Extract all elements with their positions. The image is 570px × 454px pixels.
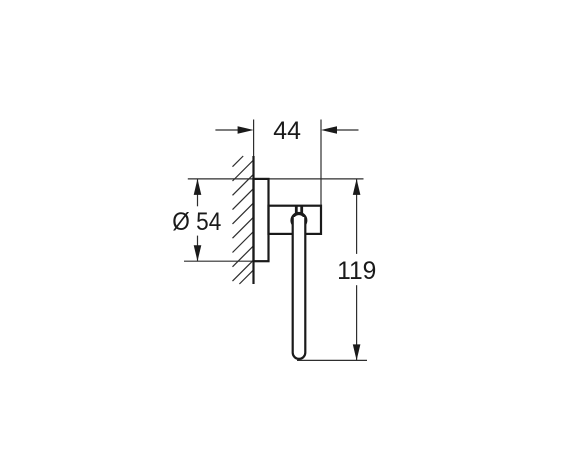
svg-text:44: 44 <box>273 117 301 145</box>
holder arm tube <box>293 217 306 359</box>
dim 44 right arrowhead <box>321 126 337 134</box>
dim 119 top arrowhead <box>353 179 361 195</box>
dim Ø54 line upper segment <box>197 179 199 206</box>
dim 44 right arrow shaft <box>332 129 359 131</box>
bottom extension line of dim Ø54 <box>184 260 269 262</box>
wall plate (Ø54 escutcheon, side view) <box>254 179 269 261</box>
pivot ball <box>292 214 306 228</box>
wall face line <box>252 156 254 284</box>
dim 119 bottom arrowhead <box>353 344 361 360</box>
top extension line (shared by dim Ø54 and dim 119) <box>188 178 364 180</box>
left extension line of dim 44 <box>253 120 255 158</box>
dim 44 left arrow shaft <box>215 129 242 131</box>
pivot stem <box>295 205 298 214</box>
svg-text:119: 119 <box>337 257 376 285</box>
bottom extension line of dim 119 <box>297 359 367 361</box>
dim Ø54 top arrowhead <box>194 179 202 195</box>
right extension line of dim 44 <box>320 120 322 207</box>
dim 44 left arrowhead <box>238 126 254 134</box>
wall section hatching <box>233 156 254 284</box>
dim 119 line lower segment <box>356 285 358 360</box>
dim Ø54 line lower segment <box>197 236 199 262</box>
dim 119 line upper segment <box>356 179 358 254</box>
svg-text:Ø 54: Ø 54 <box>172 208 221 236</box>
holder body <box>269 206 322 234</box>
dim Ø54 bottom arrowhead <box>194 245 202 261</box>
